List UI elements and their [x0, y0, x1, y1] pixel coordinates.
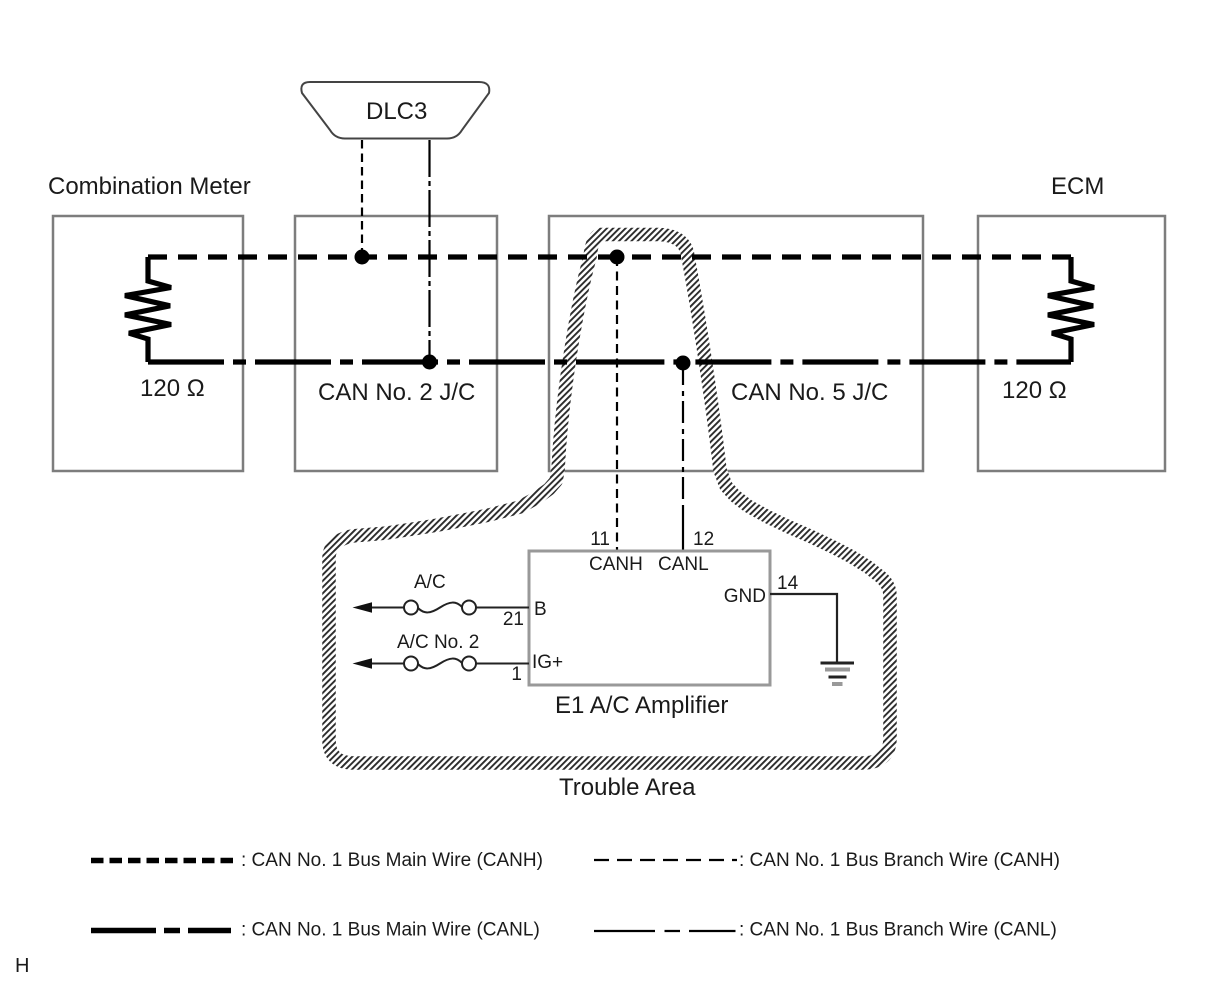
svg-text:GND: GND: [724, 586, 766, 607]
svg-text:1: 1: [511, 664, 522, 685]
svg-text:12: 12: [693, 529, 714, 550]
svg-text:IG+: IG+: [532, 652, 563, 673]
svg-text:CAN No. 5 J/C: CAN No. 5 J/C: [731, 379, 888, 406]
svg-text:120 Ω: 120 Ω: [140, 375, 205, 402]
svg-text:DLC3: DLC3: [366, 98, 427, 125]
svg-text:CANL: CANL: [658, 554, 709, 575]
svg-text:: CAN No. 1 Bus Main Wire (CAN: : CAN No. 1 Bus Main Wire (CANH): [241, 850, 543, 871]
svg-text:120 Ω: 120 Ω: [1002, 377, 1067, 404]
svg-text:14: 14: [777, 573, 799, 594]
svg-text:CANH: CANH: [589, 554, 643, 575]
svg-text:A/C: A/C: [414, 572, 446, 593]
svg-text:Combination Meter: Combination Meter: [48, 173, 251, 200]
svg-text:A/C No. 2: A/C No. 2: [397, 632, 479, 653]
svg-text:B: B: [534, 599, 547, 620]
svg-text:Trouble Area: Trouble Area: [559, 774, 696, 801]
svg-text:: CAN No. 1 Bus Branch Wire (C: : CAN No. 1 Bus Branch Wire (CANL): [739, 920, 1057, 941]
svg-text:: CAN No. 1 Bus Branch Wire (C: : CAN No. 1 Bus Branch Wire (CANH): [739, 850, 1060, 871]
svg-text:ECM: ECM: [1051, 173, 1104, 200]
svg-text:H: H: [15, 955, 29, 977]
svg-text:E1 A/C Amplifier: E1 A/C Amplifier: [555, 692, 728, 719]
svg-text:11: 11: [590, 529, 610, 550]
svg-text:CAN No. 2 J/C: CAN No. 2 J/C: [318, 379, 475, 406]
svg-text:: CAN No. 1 Bus Main Wire (CAN: : CAN No. 1 Bus Main Wire (CANL): [241, 920, 540, 941]
svg-text:21: 21: [503, 609, 524, 630]
